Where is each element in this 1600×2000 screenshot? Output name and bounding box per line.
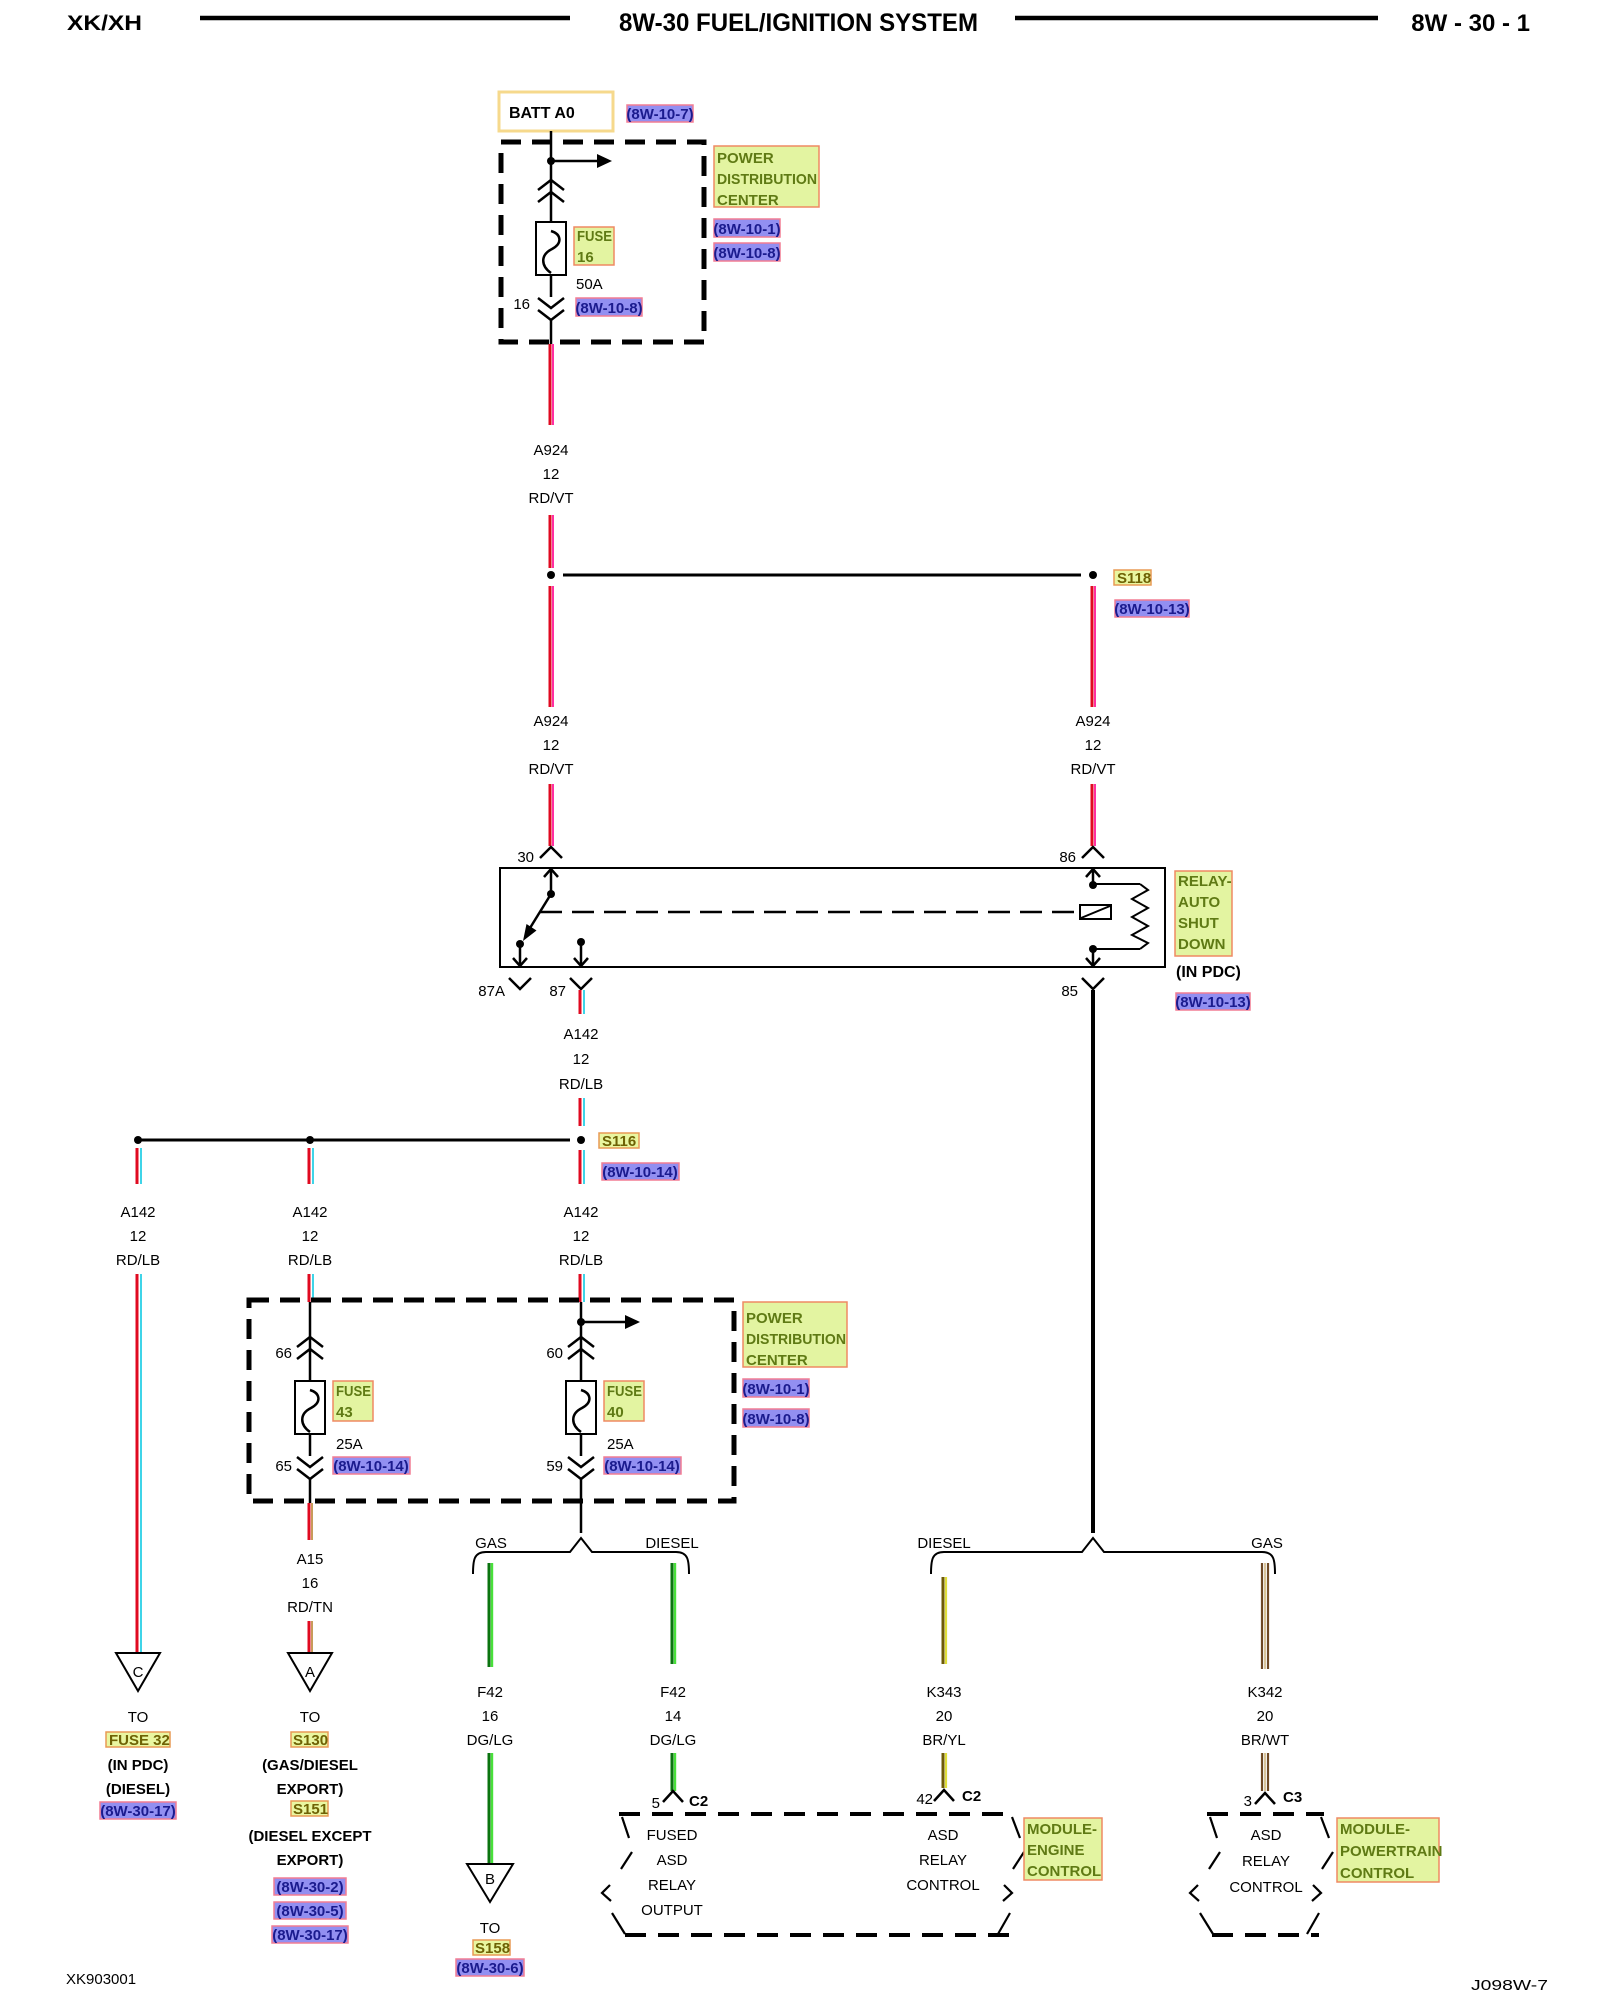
- reference (8W-10-14) left: [333, 1457, 410, 1475]
- wire K342 segment 2: [1262, 1753, 1268, 1791]
- svg-text:POWERTRAIN: POWERTRAIN: [1340, 1843, 1443, 1860]
- svg-text:59: 59: [546, 1458, 563, 1475]
- pin 16 chevrons: [538, 298, 564, 320]
- svg-text:87A: 87A: [478, 983, 505, 1000]
- reference (8W-30-17) col2: [272, 1926, 348, 1944]
- svg-text:TO: TO: [300, 1709, 321, 1726]
- reference (8W-10-14): [602, 1163, 679, 1181]
- svg-text:20: 20: [1257, 1708, 1274, 1725]
- wire below fuse 43: [309, 1434, 312, 1456]
- svg-text:(DIESEL EXCEPT: (DIESEL EXCEPT: [248, 1828, 371, 1845]
- wire F42 gas segment 2: [489, 1753, 492, 1864]
- reference (8W-10-1): [713, 219, 780, 238]
- wire A924 segment 4 left: [550, 784, 553, 846]
- connector triangle B: [467, 1864, 513, 1902]
- svg-text:DOWN: DOWN: [1178, 936, 1226, 953]
- module text ASD RELAY CONTROL (powertrain): [1229, 1827, 1302, 1896]
- reference (8W-10-8) PDC2: [742, 1409, 809, 1428]
- power distribution center 1 dashed box: [501, 142, 704, 342]
- svg-text:5: 5: [652, 1795, 660, 1812]
- pin 30 chevron: [540, 847, 562, 858]
- svg-text:(8W-10-14): (8W-10-14): [333, 1458, 409, 1475]
- svg-text:A142: A142: [292, 1204, 327, 1221]
- diesel/gas split brace right: [931, 1538, 1275, 1574]
- svg-text:16: 16: [482, 1708, 499, 1725]
- pin 85 chevron: [1082, 978, 1104, 989]
- svg-text:B: B: [485, 1871, 495, 1888]
- svg-text:DG/LG: DG/LG: [467, 1732, 514, 1749]
- wire A15 label: [287, 1551, 333, 1616]
- relay label RELAY-AUTO SHUT DOWN: [1175, 871, 1232, 956]
- fuse 43 element: [295, 1381, 325, 1434]
- wire A142 col3 into PDC: [580, 1274, 584, 1302]
- fuse 40 label: [604, 1381, 644, 1421]
- svg-text:12: 12: [543, 737, 560, 754]
- reference (8W-30-17) col1: [100, 1802, 176, 1820]
- svg-text:12: 12: [302, 1228, 319, 1245]
- wire A142 segment 2: [580, 1098, 584, 1126]
- node at S118 left: [547, 571, 555, 579]
- gas/diesel split brace left: [473, 1538, 689, 1574]
- wire A924 label 2: [529, 713, 574, 778]
- wire F42 diesel (DG/LG): [672, 1563, 675, 1664]
- wire A142 label col3: [559, 1204, 603, 1269]
- svg-text:RELAY-: RELAY-: [1178, 873, 1232, 890]
- wire below fuse 40 to split: [580, 1503, 583, 1533]
- reference (8W-30-6): [456, 1959, 524, 1977]
- svg-text:CONTROL: CONTROL: [906, 1877, 979, 1894]
- fuse 40 element: [566, 1381, 596, 1434]
- svg-text:RELAY: RELAY: [648, 1877, 696, 1894]
- battery feed BATT A0 box: [499, 92, 613, 131]
- svg-text:RD/VT: RD/VT: [1071, 761, 1116, 778]
- module text ASD RELAY CONTROL (engine): [906, 1827, 979, 1894]
- wire to PDC2 bottom left: [309, 1479, 312, 1503]
- node S116 col 3: [577, 1136, 585, 1144]
- svg-text:ASD: ASD: [657, 1852, 688, 1869]
- svg-text:C: C: [133, 1664, 144, 1681]
- svg-text:12: 12: [573, 1051, 590, 1068]
- svg-text:ASD: ASD: [1251, 1827, 1282, 1844]
- svg-text:TO: TO: [480, 1920, 501, 1937]
- wire K343 segment 2: [943, 1753, 946, 1788]
- wire A15 segment 2: [309, 1621, 312, 1653]
- svg-text:(8W-30-2): (8W-30-2): [276, 1879, 343, 1896]
- svg-text:A142: A142: [563, 1026, 598, 1043]
- svg-text:DIESEL: DIESEL: [917, 1535, 970, 1552]
- svg-text:8W-30 FUEL/IGNITION SYSTEM: 8W-30 FUEL/IGNITION SYSTEM: [619, 9, 978, 37]
- pin 86 chevron: [1082, 847, 1104, 858]
- reference (8W-10-7): [626, 105, 693, 123]
- node junction col 60: [577, 1318, 585, 1326]
- wire below fuse 40: [580, 1434, 583, 1456]
- svg-text:BR/WT: BR/WT: [1241, 1732, 1289, 1749]
- pin 66 chevrons: [297, 1337, 323, 1359]
- wire A924 label 3: [1071, 713, 1116, 778]
- svg-text:MODULE-: MODULE-: [1027, 1821, 1097, 1838]
- power distribution center 2 dashed box: [249, 1300, 734, 1501]
- svg-text:POWER: POWER: [717, 150, 774, 167]
- svg-text:30: 30: [517, 849, 534, 866]
- relay auto shut down box: [500, 868, 1165, 967]
- svg-text:DISTRIBUTION: DISTRIBUTION: [746, 1331, 846, 1348]
- reference (8W-10-1) PDC2: [742, 1379, 809, 1398]
- note (DIESEL EXCEPT EXPORT): [248, 1828, 371, 1869]
- relay common contact arrow to pin 30: [544, 869, 558, 898]
- connector chevrons above fuse 16: [538, 180, 564, 202]
- wire A142 branch stub col2: [309, 1148, 313, 1184]
- reference (8W-30-2): [274, 1878, 346, 1896]
- svg-text:60: 60: [546, 1345, 563, 1362]
- wire from relay pin 85: [1091, 990, 1095, 1533]
- svg-text:RD/LB: RD/LB: [116, 1252, 160, 1269]
- svg-text:FUSE: FUSE: [607, 1383, 642, 1400]
- wire A142 label col2: [288, 1204, 332, 1269]
- connector triangle C: [116, 1653, 160, 1691]
- wire A15 below PDC2 (RD/TN): [309, 1503, 312, 1540]
- header: [67, 9, 1530, 37]
- wire A142 from pin 87 (RD/LB): [580, 990, 584, 1014]
- svg-text:GAS: GAS: [475, 1535, 507, 1552]
- svg-text:GAS: GAS: [1251, 1535, 1283, 1552]
- relay coil lower terminal to pin 85: [1086, 945, 1100, 966]
- svg-text:20: 20: [936, 1708, 953, 1725]
- svg-text:(8W-10-13): (8W-10-13): [1175, 994, 1251, 1011]
- node S116 col 1: [134, 1136, 142, 1144]
- note (GAS/DIESEL EXPORT): [262, 1757, 358, 1798]
- svg-text:F42: F42: [477, 1684, 503, 1701]
- power distribution center label: [714, 146, 819, 209]
- wire K343 label: [922, 1684, 965, 1749]
- svg-text:A924: A924: [533, 713, 568, 730]
- module powertrain jagged left edge: [1190, 1817, 1220, 1934]
- relay coil arrow to pin 86: [1086, 869, 1100, 889]
- svg-text:16: 16: [577, 249, 594, 266]
- svg-text:EXPORT): EXPORT): [277, 1852, 344, 1869]
- svg-text:S116: S116: [602, 1133, 636, 1150]
- wire to PDC1 bottom edge: [550, 320, 553, 344]
- fuse 43 label: [333, 1381, 373, 1421]
- svg-text:A: A: [305, 1664, 315, 1681]
- svg-text:RELAY: RELAY: [919, 1852, 967, 1869]
- svg-text:12: 12: [130, 1228, 147, 1245]
- svg-text:(8W-10-8): (8W-10-8): [575, 300, 642, 317]
- splice label S118: [1114, 570, 1151, 587]
- wire A142 col2 into PDC: [309, 1274, 313, 1302]
- splice label S130: [291, 1732, 328, 1749]
- wire F42 diesel segment 2: [672, 1753, 675, 1791]
- pin 59 chevrons: [568, 1457, 594, 1479]
- wire A142 label col1: [116, 1204, 160, 1269]
- fuse 32 label: [106, 1732, 170, 1749]
- reference (8W-10-8): [713, 243, 780, 262]
- svg-text:RD/LB: RD/LB: [288, 1252, 332, 1269]
- svg-text:(GAS/DIESEL: (GAS/DIESEL: [262, 1757, 358, 1774]
- module powertrain jagged right edge: [1307, 1817, 1333, 1934]
- node junction at PDC feed: [547, 157, 555, 165]
- wire A142 label 1: [559, 1026, 603, 1093]
- svg-text:(8W-10-7): (8W-10-7): [626, 106, 693, 123]
- relay movable contact (switch): [523, 894, 551, 941]
- svg-text:43: 43: [336, 1404, 353, 1421]
- svg-text:12: 12: [1085, 737, 1102, 754]
- wire F42 gas (DG/LG): [489, 1563, 492, 1667]
- arrow to other circuits: [551, 154, 612, 168]
- svg-text:25A: 25A: [336, 1436, 363, 1453]
- pin 3 chevron C3: [1255, 1793, 1275, 1804]
- svg-text:C3: C3: [1283, 1789, 1302, 1806]
- svg-text:S151: S151: [293, 1801, 328, 1818]
- pin 87A chevron: [509, 978, 531, 989]
- svg-text:XK903001: XK903001: [66, 1971, 136, 1988]
- svg-text:A142: A142: [563, 1204, 598, 1221]
- svg-text:A142: A142: [120, 1204, 155, 1221]
- relay contact 87A terminal: [513, 940, 527, 966]
- svg-text:86: 86: [1059, 849, 1076, 866]
- svg-text:MODULE-: MODULE-: [1340, 1821, 1410, 1838]
- svg-text:DIESEL: DIESEL: [645, 1535, 698, 1552]
- svg-text:85: 85: [1061, 983, 1078, 1000]
- reference (8W-10-13): [1175, 993, 1251, 1011]
- svg-text:12: 12: [573, 1228, 590, 1245]
- module engine control jagged right edge: [998, 1817, 1024, 1934]
- svg-text:POWER: POWER: [746, 1310, 803, 1327]
- svg-text:C2: C2: [962, 1788, 981, 1805]
- fuse 16 label: [574, 227, 614, 266]
- svg-text:ENGINE: ENGINE: [1027, 1842, 1085, 1859]
- module engine control label: [1024, 1818, 1102, 1880]
- pin 60 chevrons: [568, 1337, 594, 1359]
- svg-text:(8W-30-5): (8W-30-5): [276, 1903, 343, 1920]
- svg-text:TO: TO: [128, 1709, 149, 1726]
- module powertrain control label: [1337, 1818, 1443, 1882]
- svg-text:14: 14: [665, 1708, 682, 1725]
- wire inside PDC2 col 66: [309, 1302, 312, 1381]
- wire F42 diesel label: [650, 1684, 697, 1749]
- pin 87 chevron: [570, 978, 592, 989]
- svg-text:C2: C2: [689, 1793, 708, 1810]
- svg-text:87: 87: [549, 983, 566, 1000]
- svg-text:S118: S118: [1117, 570, 1151, 587]
- svg-text:OUTPUT: OUTPUT: [641, 1902, 703, 1919]
- svg-text:A924: A924: [533, 442, 568, 459]
- svg-text:RD/TN: RD/TN: [287, 1599, 333, 1616]
- svg-text:3: 3: [1244, 1793, 1252, 1810]
- svg-text:A924: A924: [1075, 713, 1110, 730]
- svg-text:FUSED: FUSED: [647, 1827, 698, 1844]
- svg-text:42: 42: [916, 1791, 933, 1808]
- svg-text:(8W-30-17): (8W-30-17): [272, 1927, 348, 1944]
- svg-text:RELAY: RELAY: [1242, 1853, 1290, 1870]
- wire inside PDC2 col 60: [580, 1302, 583, 1381]
- svg-text:A15: A15: [297, 1551, 324, 1568]
- wire A142 branch stub col3: [580, 1150, 584, 1184]
- reference (8W-10-8): [575, 298, 642, 317]
- power distribution center 2 label: [743, 1302, 847, 1369]
- connector triangle A: [288, 1653, 332, 1691]
- svg-text:(8W-10-8): (8W-10-8): [742, 1411, 809, 1428]
- svg-text:(8W-10-14): (8W-10-14): [604, 1458, 680, 1475]
- wire to PDC2 bottom right: [580, 1479, 583, 1503]
- wire A142 branch stub col1: [136, 1148, 139, 1184]
- wire A924 segment 3 right: [1092, 586, 1095, 707]
- splice label S158: [473, 1940, 510, 1957]
- svg-text:RD/VT: RD/VT: [529, 761, 574, 778]
- svg-text:FUSE: FUSE: [577, 228, 612, 245]
- svg-text:(8W-10-8): (8W-10-8): [713, 245, 780, 262]
- svg-text:BR/YL: BR/YL: [922, 1732, 965, 1749]
- svg-text:66: 66: [275, 1345, 292, 1362]
- svg-text:50A: 50A: [576, 276, 603, 293]
- svg-text:F42: F42: [660, 1684, 686, 1701]
- svg-text:(8W-30-6): (8W-30-6): [456, 1960, 523, 1977]
- relay coil symbol box: [1080, 905, 1111, 919]
- svg-text:16: 16: [513, 296, 530, 313]
- svg-text:S130: S130: [293, 1732, 328, 1749]
- svg-text:(8W-10-14): (8W-10-14): [602, 1164, 678, 1181]
- svg-text:(8W-10-13): (8W-10-13): [1114, 601, 1190, 618]
- wire A924 segment 2: [550, 515, 553, 568]
- wire A924 label 1: [529, 442, 574, 507]
- svg-text:DISTRIBUTION: DISTRIBUTION: [717, 171, 817, 188]
- svg-text:K343: K343: [926, 1684, 961, 1701]
- svg-text:8W - 30 - 1: 8W - 30 - 1: [1411, 10, 1530, 37]
- svg-text:CONTROL: CONTROL: [1027, 1863, 1101, 1880]
- svg-text:25A: 25A: [607, 1436, 634, 1453]
- svg-text:(IN PDC): (IN PDC): [1176, 964, 1241, 981]
- svg-text:SHUT: SHUT: [1178, 915, 1219, 932]
- arrow to other circuits PDC2: [581, 1315, 640, 1329]
- svg-text:ASD: ASD: [928, 1827, 959, 1844]
- fuse 16 element: [536, 222, 566, 275]
- splice label S116: [599, 1133, 639, 1150]
- svg-text:CENTER: CENTER: [717, 192, 779, 209]
- reference (8W-10-13): [1114, 600, 1190, 618]
- splice S116 horizontal wire: [138, 1139, 570, 1142]
- svg-text:EXPORT): EXPORT): [277, 1781, 344, 1798]
- relay contact 87 terminal: [574, 938, 588, 966]
- svg-text:(8W-10-1): (8W-10-1): [742, 1381, 809, 1398]
- splice S118 horizontal wire: [563, 574, 1081, 577]
- svg-text:BATT A0: BATT A0: [509, 105, 575, 122]
- svg-text:XK/XH: XK/XH: [67, 12, 142, 35]
- module engine control dashed box: [619, 1814, 1014, 1935]
- wire A924 segment 1 (RD/VT): [550, 344, 553, 425]
- svg-text:40: 40: [607, 1404, 624, 1421]
- wire A142 long run to connector C: [136, 1274, 139, 1653]
- module text FUSED ASD RELAY OUTPUT: [641, 1827, 703, 1919]
- svg-text:12: 12: [543, 466, 560, 483]
- pin 42 chevron C2: [934, 1790, 954, 1801]
- svg-text:J098W-7: J098W-7: [1471, 1977, 1548, 1994]
- wire below fuse 16: [550, 275, 553, 297]
- svg-text:CENTER: CENTER: [746, 1352, 808, 1369]
- module engine control jagged left edge: [602, 1817, 632, 1934]
- splice label S151: [291, 1801, 328, 1818]
- svg-text:FUSE: FUSE: [336, 1383, 371, 1400]
- reference (8W-10-14) right: [604, 1457, 681, 1475]
- svg-text:CONTROL: CONTROL: [1229, 1879, 1302, 1896]
- svg-text:(DIESEL): (DIESEL): [106, 1781, 170, 1798]
- pin 5 chevron C2: [663, 1791, 683, 1802]
- svg-text:FUSE 32: FUSE 32: [109, 1732, 170, 1749]
- wire from battery into PDC: [550, 131, 553, 222]
- svg-text:(8W-30-17): (8W-30-17): [100, 1803, 176, 1820]
- svg-text:(8W-10-1): (8W-10-1): [713, 221, 780, 238]
- wire K343 (BR/YL): [943, 1577, 946, 1664]
- relay coil resistor zigzag: [1093, 884, 1148, 949]
- reference (8W-30-5): [274, 1902, 346, 1920]
- wire F42 gas label: [467, 1684, 514, 1749]
- svg-text:RD/VT: RD/VT: [529, 490, 574, 507]
- pin 65 chevrons: [297, 1457, 323, 1479]
- wire K342 label: [1241, 1684, 1289, 1749]
- svg-text:AUTO: AUTO: [1178, 894, 1221, 911]
- svg-text:65: 65: [275, 1458, 292, 1475]
- svg-text:S158: S158: [475, 1940, 510, 1957]
- wire A924 segment 4 right: [1092, 784, 1095, 846]
- svg-text:CONTROL: CONTROL: [1340, 1865, 1414, 1882]
- module powertrain control dashed box: [1207, 1814, 1324, 1935]
- svg-text:16: 16: [302, 1575, 319, 1592]
- svg-text:DG/LG: DG/LG: [650, 1732, 697, 1749]
- node at S118 right: [1089, 571, 1097, 579]
- wire K342 (BR/WT): [1262, 1563, 1268, 1669]
- wire A924 segment 3 left: [550, 586, 553, 707]
- svg-text:(IN PDC): (IN PDC): [108, 1757, 169, 1774]
- svg-text:RD/LB: RD/LB: [559, 1252, 603, 1269]
- relay internal dashed link: [540, 911, 1078, 914]
- svg-text:RD/LB: RD/LB: [559, 1076, 603, 1093]
- node S116 col 2: [306, 1136, 314, 1144]
- svg-text:K342: K342: [1247, 1684, 1282, 1701]
